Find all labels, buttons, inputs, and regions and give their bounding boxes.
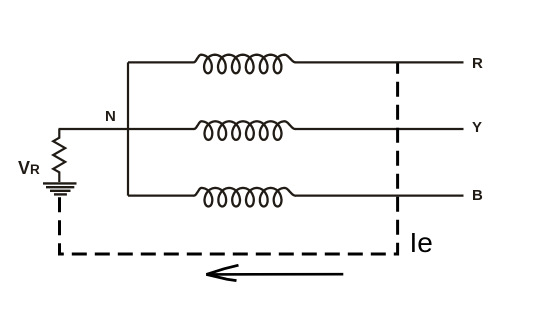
wire: Y phase right lead (295, 128, 464, 130)
label B terminal (472, 187, 483, 204)
label Ie earth current (410, 227, 433, 259)
wire: R phase right lead (296, 61, 464, 63)
inductor winding Y phase (194, 121, 295, 140)
wire: R phase left lead (128, 61, 193, 63)
label VR resistor value (18, 158, 40, 179)
ground symbol (43, 183, 77, 194)
inductor winding B phase (194, 188, 295, 207)
wire: B phase left lead (128, 195, 194, 197)
resistor VR zigzag (53, 129, 65, 182)
wire: dashed earth-fault current return path (60, 64, 398, 255)
arrow: earth current direction (206, 265, 343, 280)
label Y terminal (472, 119, 482, 136)
label R terminal (472, 55, 483, 72)
wire: Y phase left lead from node N (59, 128, 195, 130)
wire: B phase right lead (295, 195, 464, 197)
wire: neutral bus vertical (127, 62, 129, 195)
node N label (105, 108, 116, 125)
inductor winding R phase (194, 55, 296, 74)
